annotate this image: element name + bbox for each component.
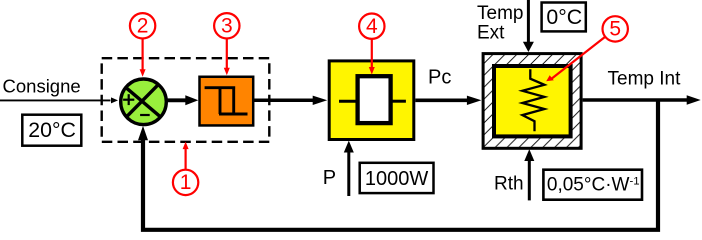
callout 2: [130, 13, 155, 77]
svg-text:5: 5: [609, 18, 621, 41]
value box 20°C: [22, 115, 81, 146]
svg-text:Pc: Pc: [428, 66, 451, 88]
svg-text:20°C: 20°C: [28, 118, 76, 142]
label Consigne: [3, 76, 81, 97]
heater block: [329, 61, 414, 140]
label Temp Ext: [477, 3, 523, 44]
svg-text:3: 3: [221, 15, 233, 38]
svg-text:1: 1: [180, 171, 192, 194]
svg-text:Temp Int: Temp Int: [608, 69, 682, 90]
room block (hatched walls): [483, 54, 581, 149]
resistor Rth symbol: [522, 69, 544, 131]
label Temp Int: [608, 69, 682, 90]
wire summing to relay: [166, 95, 199, 105]
wire Temp Int output: [583, 95, 701, 104]
wire Rth input: [524, 149, 534, 200]
value box 1000W: [360, 163, 434, 193]
wire relay to heater: [254, 96, 327, 105]
callout 3: [214, 13, 239, 75]
callout 4: [359, 14, 384, 75]
svg-text:1000W: 1000W: [365, 168, 428, 190]
wire heater to room: [415, 96, 481, 105]
label Pc: [428, 66, 451, 88]
callout 1: [173, 142, 198, 195]
svg-text:Rth: Rth: [494, 173, 524, 194]
relay block (hysteresis comparator): [200, 77, 254, 126]
wire P input: [344, 141, 354, 196]
svg-text:Temp: Temp: [477, 3, 523, 24]
svg-text:2: 2: [137, 15, 149, 38]
svg-text:4: 4: [366, 15, 378, 38]
svg-text:0,05°C·W-1: 0,05°C·W-1: [547, 175, 640, 196]
callout 5: [546, 16, 628, 81]
summing junction: [121, 79, 167, 125]
svg-text:0°C: 0°C: [546, 5, 582, 29]
wire consigne input: [0, 97, 118, 103]
value box 0,05°C·W⁻¹: [543, 170, 642, 200]
svg-text:Ext: Ext: [477, 23, 505, 44]
value box 0°C: [542, 3, 586, 32]
regulator dashed box: [102, 58, 270, 142]
feedback wire: [138, 100, 658, 230]
wire Temp Ext input: [523, 0, 534, 52]
svg-text:P: P: [323, 167, 336, 189]
label Rth: [494, 173, 524, 194]
label P: [323, 167, 336, 189]
svg-text:Consigne: Consigne: [3, 76, 81, 97]
